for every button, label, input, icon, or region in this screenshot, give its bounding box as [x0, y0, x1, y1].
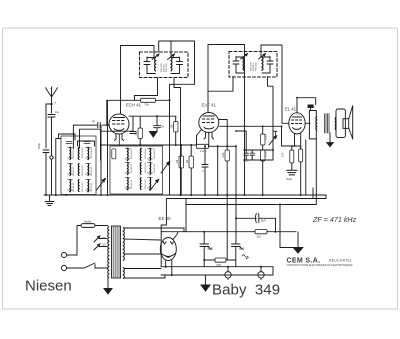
svg-text:50µF: 50µF	[286, 177, 292, 181]
power transformer heater winding	[123, 268, 124, 279]
wire IFT2 secondary bottom	[268, 77, 274, 161]
tube EAF41 electrodes	[202, 116, 214, 129]
speaker cone	[349, 106, 353, 139]
pilot lamp LP1	[225, 272, 231, 278]
coil L6a	[149, 149, 152, 161]
resistor R2 75k	[141, 98, 156, 102]
capacitor C11 2.2nF	[197, 144, 209, 148]
svg-text:EL 41: EL 41	[285, 107, 297, 112]
coil ties T2	[125, 149, 153, 189]
wire ECH41 cathode down	[118, 134, 120, 146]
power transformer core	[112, 226, 121, 278]
node a junction	[50, 103, 52, 105]
svg-text:330 120 25: 330 120 25	[145, 162, 147, 173]
capacitor C14 tone	[308, 105, 314, 109]
svg-text:220: 220	[102, 237, 107, 240]
svg-text:500 250 60: 500 250 60	[145, 148, 147, 159]
wire EZ40 top B+	[161, 232, 246, 240]
coil L1a	[69, 148, 72, 160]
svg-text:1M: 1M	[175, 160, 179, 164]
svg-text:150: 150	[281, 152, 285, 157]
junction dots T1	[69, 147, 89, 193]
svg-text:6.8k: 6.8k	[221, 152, 225, 158]
coil L3a	[87, 148, 90, 160]
IF transformer IFT2 shield	[229, 52, 277, 78]
coil L5a	[139, 149, 142, 161]
wire EAF41 plate to IFT2	[207, 45, 209, 113]
svg-text:75k: 75k	[144, 102, 149, 106]
coil L2a	[77, 148, 80, 160]
svg-text:400 180 50: 400 180 50	[91, 147, 93, 158]
coil L2b	[77, 164, 80, 176]
heater line upper	[161, 266, 273, 268]
antenna	[46, 87, 58, 104]
bus line L3	[186, 139, 316, 232]
wires detector cluster	[245, 126, 274, 195]
wire EZ40 plate feeds	[124, 239, 162, 254]
wire EL41 plate to OT	[305, 111, 316, 139]
wire IFT2 top rail	[208, 45, 245, 196]
wire IFT1 second rail	[159, 41, 195, 100]
capacitor C16 filter 8uF	[200, 232, 212, 267]
wire band link upper	[73, 101, 109, 196]
svg-text:0.2M: 0.2M	[264, 134, 268, 140]
capacitor C17 filter 8uF	[232, 243, 244, 267]
tube ECH41 legs	[115, 134, 124, 141]
svg-text:100p: 100p	[243, 160, 249, 163]
capacitor C1 series in left branch	[43, 150, 49, 195]
coil L2c	[77, 180, 80, 192]
wire lamp feed	[306, 140, 313, 199]
svg-text:8µF: 8µF	[208, 247, 213, 251]
ground under power transformer	[107, 278, 109, 289]
wire IFT1 top rail	[121, 46, 155, 58]
svg-text:ECH 41: ECH 41	[126, 103, 142, 108]
resistor R6	[189, 156, 194, 168]
svg-text:110 60 30: 110 60 30	[73, 182, 75, 192]
resistor R9	[261, 150, 266, 161]
svg-text:Niesen: Niesen	[25, 278, 72, 295]
coil L6c	[149, 178, 152, 190]
svg-text:1k2: 1k2	[257, 235, 262, 239]
coil L1c	[69, 180, 72, 192]
ground arrow under C9	[150, 132, 158, 138]
tube EZ40 electrodes	[162, 242, 176, 258]
wire AVC line	[101, 144, 197, 146]
wire IFT2 second rail	[261, 45, 282, 123]
svg-text:150 70 45: 150 70 45	[145, 179, 147, 189]
resistor R8 volume top	[261, 134, 266, 145]
speaker frame	[336, 109, 345, 138]
detector cluster capacitor C12	[244, 150, 248, 160]
wire EL41 plate top	[297, 98, 316, 113]
wire plate line ECH41-EAF41	[129, 115, 176, 117]
wire IFT1 primary bottom	[135, 78, 158, 101]
resistor R13 1k2	[255, 230, 267, 234]
tube EL41 electrodes	[292, 117, 302, 129]
svg-text:220 80 15: 220 80 15	[73, 166, 75, 176]
svg-text:MF1 450: MF1 450	[166, 63, 168, 72]
wire EAF41 grid diagonal	[197, 130, 202, 145]
capacitor C7 tank	[267, 57, 273, 74]
svg-text:150 70 45: 150 70 45	[82, 182, 84, 192]
svg-text:5µF: 5µF	[261, 219, 266, 223]
wire diode line	[220, 125, 283, 127]
wire screen line	[107, 99, 170, 101]
svg-text:125: 125	[102, 244, 107, 247]
ground symbol main	[45, 195, 54, 206]
svg-text:EAF 41: EAF 41	[202, 103, 217, 108]
junction dots T2	[127, 148, 151, 191]
resistor R11 EL41 cathode	[299, 149, 303, 162]
mains terminal lower	[61, 265, 66, 270]
resistor R4	[174, 122, 179, 133]
tube ECH41 envelope	[109, 114, 129, 134]
wire band link lower	[80, 129, 101, 160]
svg-text:2.2nF: 2.2nF	[200, 149, 207, 153]
speaker magnet	[343, 119, 349, 129]
coil L8 secondary	[170, 57, 173, 71]
wire EAF cathode	[208, 132, 210, 146]
capacitor C15 cathode bypass to ground	[287, 170, 298, 175]
coil L4a	[127, 149, 130, 161]
antenna coil box T1	[61, 136, 96, 195]
wires transformer secondary	[125, 228, 185, 278]
svg-text:220 80 15: 220 80 15	[131, 163, 133, 173]
svg-text:2k2: 2k2	[134, 131, 138, 136]
tube EL41 legs	[295, 134, 301, 149]
svg-text:500 250 60: 500 250 60	[82, 147, 84, 158]
svg-text:500p: 500p	[37, 143, 41, 149]
coil L7 primary	[154, 57, 157, 71]
coil L9 primary	[242, 57, 245, 71]
tube EZ40 legs	[166, 260, 172, 275]
coil L5b	[139, 163, 142, 175]
potentiometer arrow P1	[269, 136, 277, 145]
tube EAF41 envelope	[199, 113, 219, 133]
tiny component value labels	[37, 62, 292, 267]
resistor R5 1M	[179, 156, 184, 168]
wires EL41 cathode	[292, 146, 301, 195]
resistor R1	[112, 149, 116, 159]
svg-text:300 150 40: 300 150 40	[131, 148, 133, 159]
svg-text:8µF: 8µF	[239, 247, 244, 251]
wire ECH41 plate to IFT1	[120, 46, 122, 115]
wire EL41 grid	[282, 122, 289, 124]
svg-text:CONSTRUCTIONS ELECTRIQUES ET E: CONSTRUCTIONS ELECTRIQUES ET ELECTRONIQU…	[287, 264, 353, 267]
wire ECH41 grid feed	[107, 100, 109, 125]
wire IFT1 secondary bottom	[174, 78, 181, 196]
wire antenna branch left	[46, 104, 52, 148]
resistor R7	[225, 150, 230, 161]
wire left block vertical feed	[56, 139, 61, 196]
output transformer OT primary	[316, 117, 317, 131]
speaker voice coil	[334, 117, 337, 130]
switch S2 mains	[67, 263, 108, 268]
resistor R3	[138, 128, 143, 139]
svg-text:Baby 349: Baby 349	[212, 282, 280, 299]
tube EAF41 legs	[204, 132, 214, 139]
svg-text:fusible: fusible	[84, 220, 92, 224]
svg-text:260 90 20: 260 90 20	[154, 163, 156, 173]
bus line L2	[161, 195, 326, 267]
switch contact S1	[50, 156, 53, 159]
wire EL41 bias feed	[282, 126, 301, 146]
coil L3b	[87, 164, 90, 176]
wire detector return	[217, 146, 219, 195]
capacitor C4 tank	[144, 57, 150, 74]
wire B+ drop from L3	[280, 205, 298, 248]
pilot lamp LP2	[258, 272, 264, 278]
tube EZ40 envelope	[160, 238, 176, 261]
capacitor C2 antenna coupling	[48, 115, 55, 156]
coil L3c	[87, 180, 90, 192]
coil L4b	[127, 163, 130, 175]
svg-text:0.5M: 0.5M	[264, 151, 268, 157]
resistor R12 filter	[215, 258, 226, 262]
svg-text:Ca: Ca	[55, 110, 59, 114]
ground under output transformer	[329, 133, 331, 143]
wire IFT2 primary bottom	[208, 77, 233, 92]
cord squiggle symbol	[242, 255, 249, 259]
heater line lower	[161, 267, 273, 275]
capacitor C18 5uF	[236, 214, 276, 232]
wire mains upper with fuse F1	[67, 226, 81, 256]
svg-text:260 90 20: 260 90 20	[91, 166, 93, 176]
trimmer capacitor CT3	[161, 162, 170, 173]
wire vertical AVC	[169, 100, 171, 195]
wire antenna main down	[51, 104, 53, 113]
output transformer core	[325, 114, 330, 133]
trimmer capacitor CT2	[150, 180, 159, 191]
svg-text:20k: 20k	[170, 124, 174, 129]
mains terminal upper	[61, 252, 66, 257]
tube ECH41 electrodes	[113, 118, 125, 131]
IF transformer IFT1 shield	[140, 52, 189, 78]
power transformer secondary HT	[123, 228, 124, 261]
trimmer capacitor CT1	[97, 179, 106, 190]
main ground bus L1	[44, 194, 326, 196]
resistor R10 EL41 cathode	[290, 150, 294, 163]
capacitor C6 tank	[233, 57, 239, 74]
tube EL41 envelope	[289, 113, 305, 134]
capacitor C8	[130, 116, 136, 133]
wire down to cap C17	[235, 146, 237, 242]
ground arrow CEM	[297, 232, 299, 248]
svg-text:ZF = 471 kHz: ZF = 471 kHz	[312, 215, 357, 224]
capacitor C3 coupling 2p	[98, 123, 100, 128]
capacitor C10	[202, 148, 208, 196]
capacitor C9 with ground	[154, 116, 161, 131]
svg-text:MF2 450: MF2 450	[256, 62, 258, 71]
detector cluster capacitor C13	[250, 150, 254, 160]
wire top link right	[78, 141, 95, 146]
power transformer primary coil	[108, 227, 109, 278]
label column T2 micro text	[131, 148, 156, 189]
svg-text:NEUCHATEL: NEUCHATEL	[329, 259, 352, 263]
oscillator coil box T2	[110, 146, 163, 194]
capacitor C5 tank	[177, 57, 183, 74]
svg-text:600: 600	[217, 263, 222, 267]
coil L5c	[139, 178, 142, 190]
coil ties T1	[68, 148, 91, 191]
svg-text:110 60 30: 110 60 30	[131, 179, 133, 189]
coil L6b	[149, 163, 152, 175]
ground heater CT	[205, 275, 207, 285]
voltage selector arrows	[94, 236, 107, 250]
wire to detector cap	[236, 131, 246, 150]
label column T1 micro text	[73, 147, 93, 192]
svg-text:130 50 35: 130 50 35	[91, 182, 93, 192]
svg-text:400 180 50: 400 180 50	[154, 148, 156, 159]
wire AVC left verticals	[101, 125, 133, 195]
wire top link left	[59, 134, 76, 140]
fuse F1	[81, 224, 95, 228]
coil L4c	[127, 178, 130, 190]
svg-text:EZ 40: EZ 40	[159, 216, 172, 221]
coil L1b	[69, 164, 72, 176]
svg-text:1M: 1M	[185, 160, 189, 164]
coil L10 secondary	[261, 57, 264, 71]
svg-text:330 120 25: 330 120 25	[82, 165, 84, 176]
svg-text:0.1: 0.1	[202, 169, 206, 173]
